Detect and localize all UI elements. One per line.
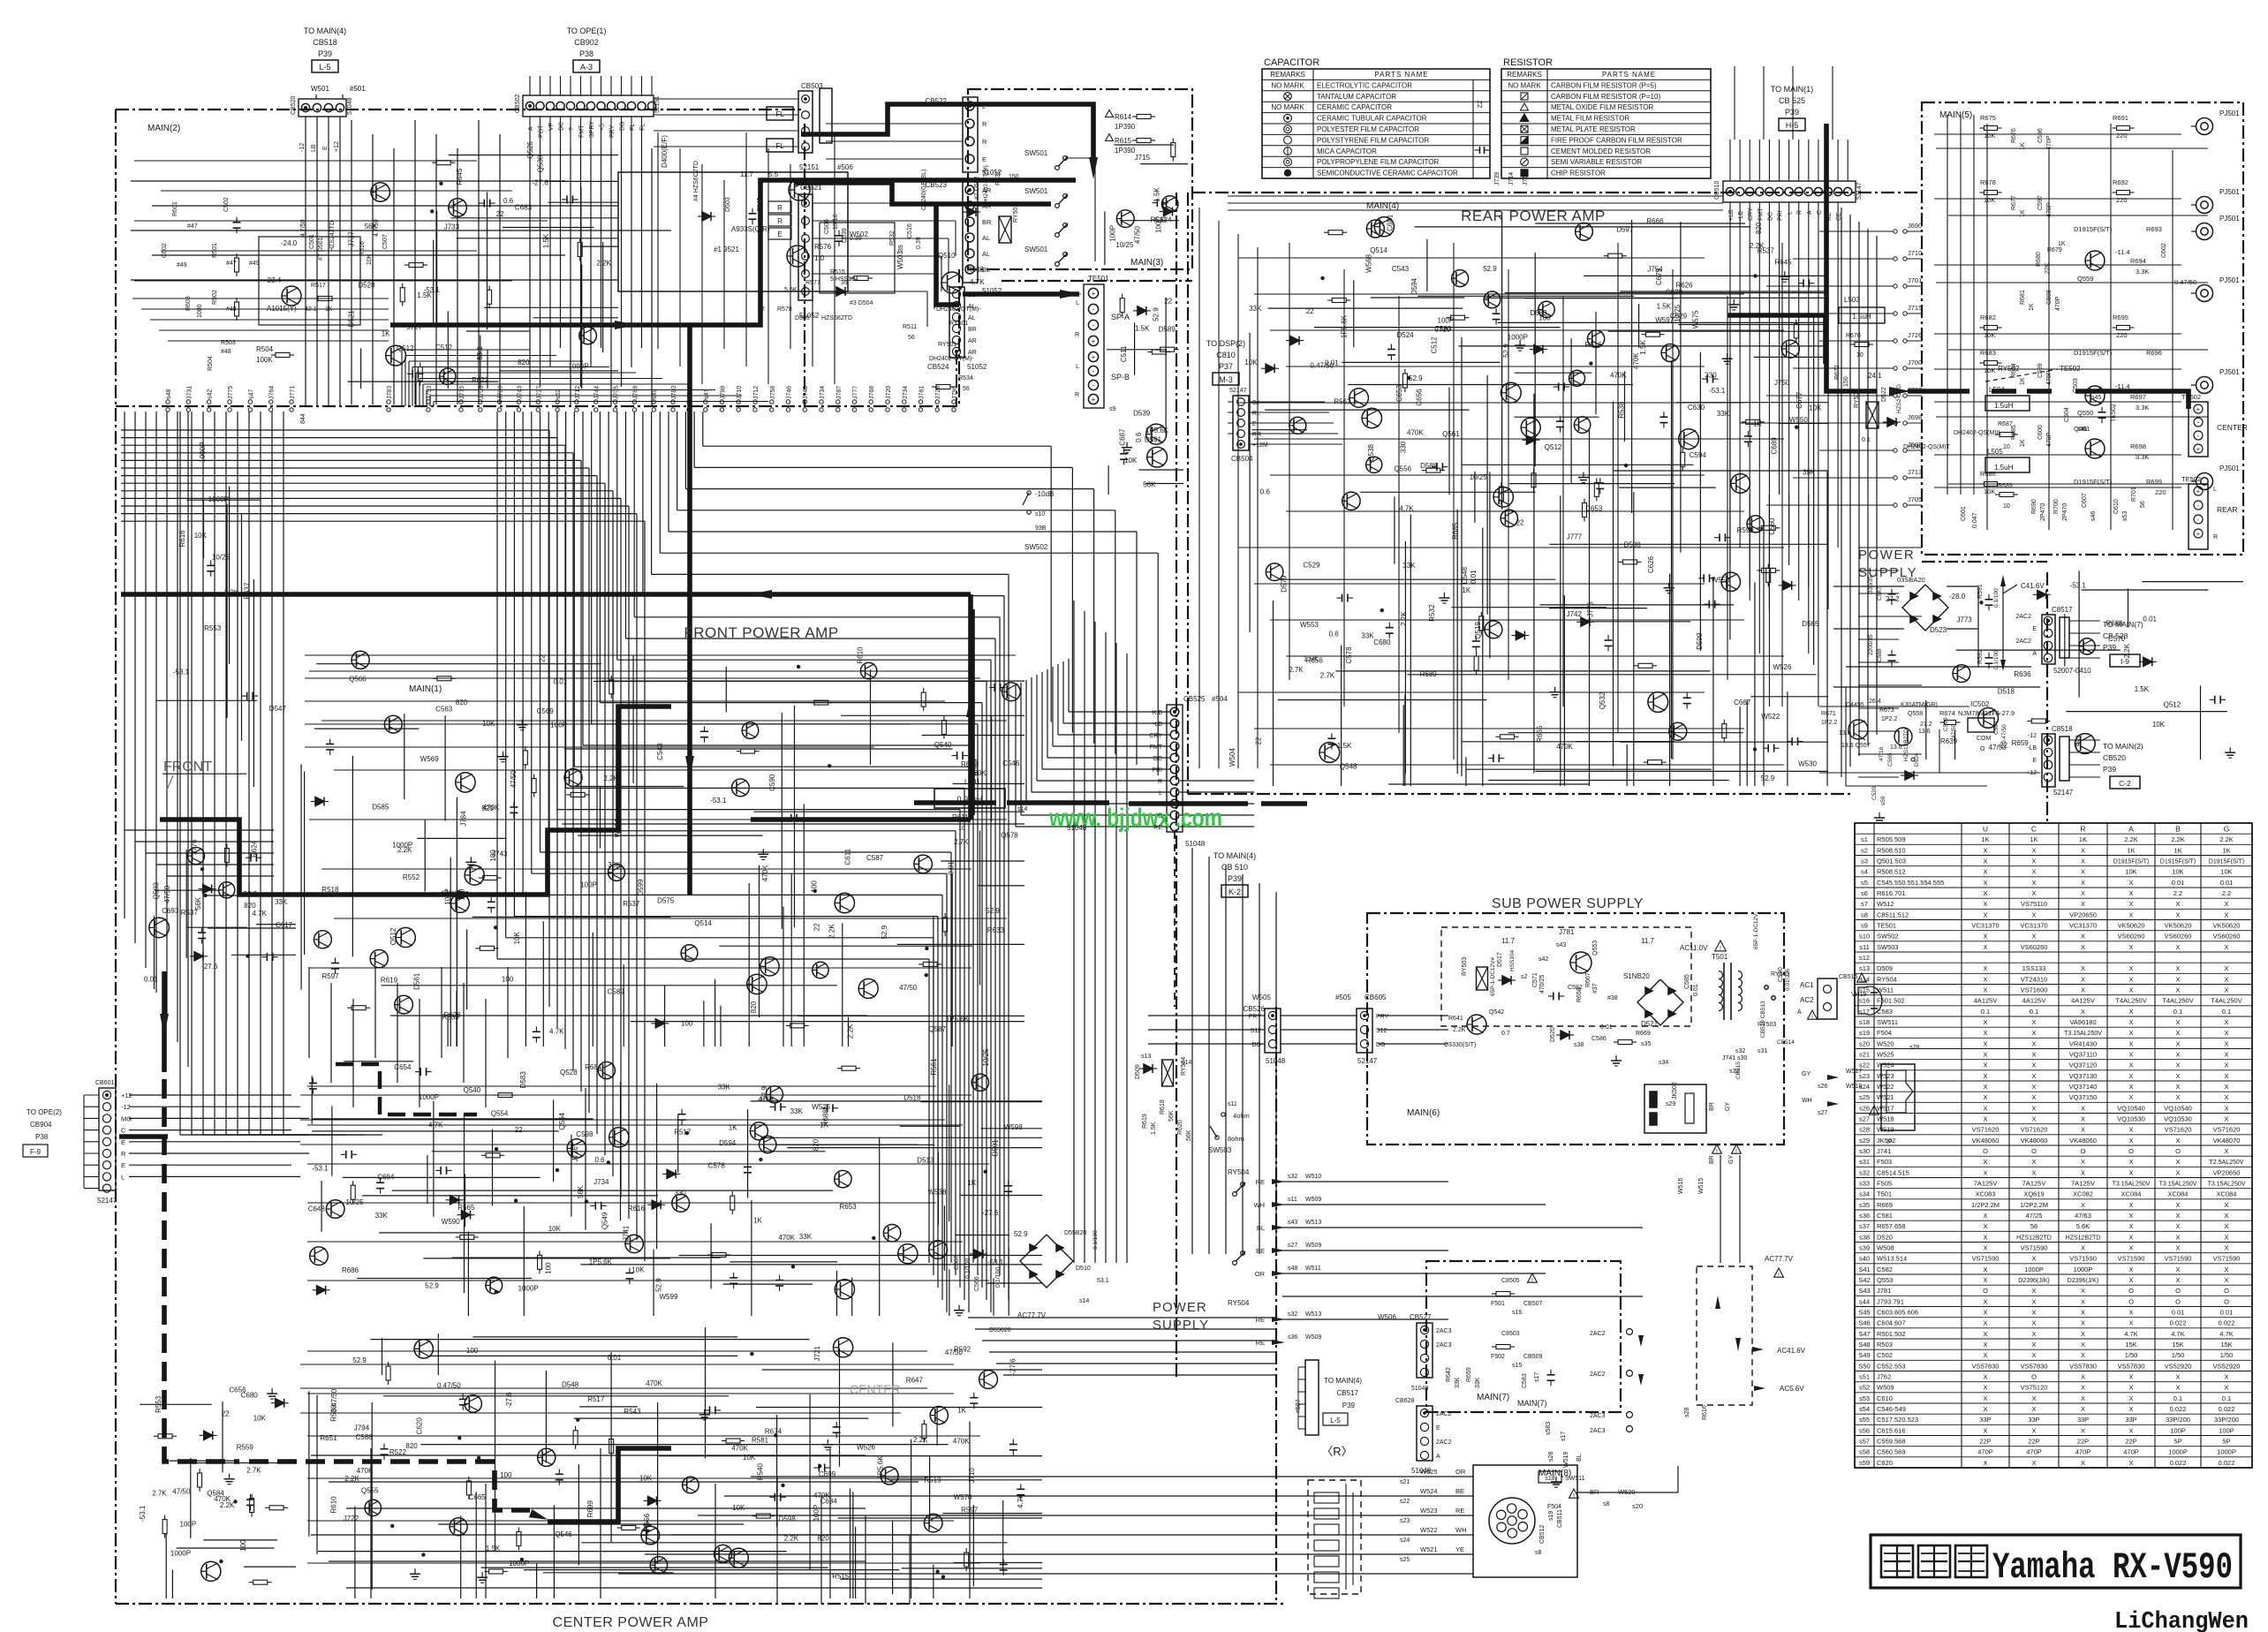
svg-text:22: 22 [222, 1409, 230, 1417]
svg-text:W519: W519 [1563, 1452, 1569, 1468]
svg-text:s9: s9 [1109, 406, 1116, 412]
svg-text:+: + [2196, 405, 2201, 413]
svg-text:56: 56 [963, 386, 970, 392]
svg-text:D589: D589 [1159, 325, 1176, 333]
svg-text:C598: C598 [576, 1130, 593, 1138]
svg-text:#507: #507 [1296, 1399, 1302, 1413]
svg-text:0.022: 0.022 [2170, 1319, 2187, 1327]
svg-text:J798: J798 [721, 386, 727, 399]
svg-text:W509: W509 [1305, 1197, 1321, 1203]
svg-text:X: X [1983, 1072, 1987, 1080]
svg-text:10K: 10K [2125, 868, 2136, 876]
svg-text:FMT: FMT [1150, 744, 1163, 751]
svg-text:s36: s36 [1288, 1334, 1297, 1341]
svg-text:S43: S43 [1858, 1287, 1870, 1295]
svg-text:R553: R553 [155, 1395, 163, 1413]
svg-text:s31: s31 [1859, 1158, 1870, 1166]
svg-text:33K: 33K [1249, 305, 1262, 313]
svg-text:Q526: Q526 [526, 141, 534, 159]
svg-text:X: X [2128, 1405, 2133, 1413]
svg-text:0.022: 0.022 [2170, 1405, 2187, 1413]
svg-text:X: X [2224, 1104, 2228, 1112]
svg-text:X: X [2224, 1039, 2228, 1047]
svg-text:39: 39 [898, 245, 904, 252]
svg-text:METAL FILM RESISTOR: METAL FILM RESISTOR [1551, 115, 1629, 123]
svg-text:GY: GY [1725, 1102, 1731, 1111]
svg-text:470K: 470K [440, 890, 457, 898]
svg-text:C583: C583 [1522, 1373, 1528, 1388]
svg-text:AC11.0V: AC11.0V [1680, 944, 1708, 952]
svg-text:#506: #506 [837, 163, 853, 171]
svg-text:470K: 470K [761, 865, 769, 881]
svg-text:TE501: TE501 [1877, 922, 1896, 930]
svg-text:C653: C653 [1395, 384, 1403, 402]
svg-text:R517: R517 [674, 1129, 692, 1137]
svg-text:D575: D575 [657, 896, 675, 904]
svg-text:C602: C602 [2161, 243, 2167, 258]
svg-text:K-2: K-2 [1228, 888, 1241, 896]
svg-text:R619: R619 [381, 976, 398, 984]
svg-text:X: X [2175, 900, 2180, 908]
svg-text:X: X [2128, 1222, 2133, 1230]
svg-text:1.5K: 1.5K [1151, 1122, 1157, 1135]
svg-text:W530: W530 [1798, 759, 1817, 767]
svg-text:0.01/275: 0.01/275 [1785, 968, 1791, 991]
svg-text:10K: 10K [2152, 721, 2166, 729]
svg-text:Q578: Q578 [1001, 831, 1018, 839]
svg-text:s24: s24 [1400, 1538, 1410, 1544]
svg-text:P39: P39 [1342, 1402, 1356, 1409]
svg-text:P39: P39 [1785, 108, 1799, 117]
svg-text:C: C [1158, 813, 1162, 820]
svg-text:R615: R615 [1115, 137, 1132, 145]
svg-text:0.1/100: 0.1/100 [995, 1267, 1002, 1288]
svg-text:Q519: Q519 [1474, 622, 1482, 639]
svg-text:X: X [2081, 900, 2085, 908]
svg-text:X: X [1983, 900, 1987, 908]
svg-text:C687: C687 [1118, 428, 1126, 446]
svg-text:3.3K: 3.3K [2136, 453, 2149, 461]
svg-text:R676: R676 [2011, 128, 2017, 143]
svg-text:1000P: 1000P [170, 1550, 191, 1558]
svg-text:X: X [2128, 1072, 2133, 1080]
svg-text:J734: J734 [820, 386, 826, 399]
svg-text:DH2402-QT(M)-: DH2402-QT(M)- [936, 306, 981, 313]
svg-text:X: X [2175, 1137, 2180, 1145]
svg-text:s4: s4 [1861, 868, 1868, 876]
svg-text:DH2402-QT(M): DH2402-QT(M) [983, 165, 989, 205]
svg-text:W506: W506 [1378, 1313, 1396, 1321]
svg-text:C694: C694 [377, 1174, 395, 1182]
svg-text:X: X [2081, 1309, 2085, 1317]
svg-text:52147: 52147 [1229, 388, 1247, 394]
svg-text:R665: R665 [1536, 725, 1544, 743]
svg-text:1K: 1K [2020, 142, 2026, 150]
svg-text:W511: W511 [1305, 1266, 1321, 1272]
svg-text:J762: J762 [1877, 1373, 1891, 1381]
svg-text:!: ! [1778, 1273, 1780, 1279]
svg-text:J737: J737 [1908, 386, 1922, 394]
svg-text:R504: R504 [208, 356, 214, 371]
svg-text:C630: C630 [1688, 404, 1705, 412]
svg-text:52007-0410: 52007-0410 [2053, 667, 2091, 675]
svg-text:R636: R636 [2014, 670, 2031, 678]
svg-text:R: R [1797, 210, 1803, 215]
svg-text:C600: C600 [2037, 425, 2044, 440]
svg-text:X: X [2175, 1083, 2180, 1091]
svg-text:R689: R689 [1998, 483, 2013, 489]
svg-text:X: X [2031, 1426, 2036, 1434]
svg-text:PRI: PRI [1152, 767, 1162, 774]
svg-text:R532: R532 [1428, 604, 1436, 622]
svg-text:O: O [2175, 1297, 2181, 1305]
svg-text:0.1: 0.1 [1981, 1008, 1990, 1016]
svg-text:10K: 10K [367, 253, 373, 265]
svg-text:s13: s13 [1141, 1054, 1151, 1060]
svg-text:D547: D547 [269, 705, 287, 713]
svg-text:METAL OXIDE FILM RESISTOR: METAL OXIDE FILM RESISTOR [1551, 103, 1654, 111]
svg-text:W599: W599 [660, 1293, 678, 1301]
svg-text:1000P: 1000P [2168, 1448, 2188, 1456]
svg-text:-12: -12 [2028, 733, 2037, 739]
svg-text:J745: J745 [803, 386, 809, 399]
svg-text:RE: RE [1256, 1316, 1265, 1324]
svg-text:C539: C539 [842, 228, 848, 243]
svg-text:POWER: POWER [1153, 1300, 1207, 1315]
svg-text:TE502: TE502 [2181, 393, 2201, 401]
svg-text:TO OPE(1): TO OPE(1) [567, 26, 607, 35]
svg-text:X: X [2128, 1373, 2133, 1381]
svg-text:TO MAIN(4): TO MAIN(4) [1213, 851, 1256, 860]
svg-text:11.7: 11.7 [740, 170, 754, 178]
svg-text:X: X [2128, 1266, 2133, 1273]
svg-text:-12: -12 [121, 1103, 131, 1111]
svg-text:J746: J746 [787, 386, 793, 399]
svg-text:X: X [1983, 1394, 1987, 1402]
svg-text:D583: D583 [519, 1071, 527, 1089]
svg-text:X: X [2031, 1051, 2036, 1059]
svg-text:C517.520.523: C517.520.523 [1877, 1416, 1918, 1424]
svg-text:C545.550.551.554.555: C545.550.551.554.555 [1877, 879, 1944, 887]
svg-text:R: R [777, 204, 782, 212]
svg-text:-27.6: -27.6 [505, 1392, 513, 1409]
svg-text:220: 220 [2155, 488, 2166, 496]
svg-text:VS60260: VS60260 [2213, 933, 2241, 941]
svg-text:W526: W526 [857, 1444, 875, 1452]
svg-text:4A125V: 4A125V [1974, 997, 1998, 1005]
svg-text:TE502: TE502 [2181, 475, 2201, 483]
svg-text:J783: J783 [387, 386, 393, 399]
svg-text:1000P: 1000P [2217, 1448, 2236, 1456]
svg-text:X: X [2081, 964, 2085, 972]
svg-text:R696: R696 [2146, 349, 2162, 357]
svg-text:RE: RE [1256, 1178, 1265, 1186]
svg-text:J701: J701 [1908, 276, 1922, 284]
svg-text:820: 820 [518, 359, 530, 366]
svg-text:X: X [1983, 846, 1987, 854]
svg-text:X: X [1983, 1405, 1987, 1413]
svg-text:J713: J713 [1908, 468, 1922, 476]
svg-text:X: X [2031, 868, 2036, 876]
svg-text:R642: R642 [1446, 1367, 1452, 1382]
svg-text:D510: D510 [1076, 1266, 1091, 1272]
svg-text:R671: R671 [1821, 711, 1836, 717]
svg-text:52147: 52147 [97, 1197, 117, 1205]
svg-text:MAIN(3): MAIN(3) [1130, 258, 1163, 268]
svg-text:TO DSP(2): TO DSP(2) [1206, 339, 1245, 348]
svg-text:C699: C699 [819, 1470, 836, 1478]
svg-text:J722: J722 [344, 1515, 359, 1522]
svg-text:0.1: 0.1 [1862, 437, 1871, 443]
svg-text:PRI: PRI [1778, 210, 1784, 221]
svg-text:X: X [2224, 1147, 2228, 1155]
svg-text:TE502: TE502 [2111, 404, 2117, 422]
svg-text:51052: 51052 [967, 363, 987, 371]
svg-text:Q549: Q549 [601, 1212, 609, 1229]
svg-text:J720: J720 [886, 386, 892, 399]
svg-text:52.9: 52.9 [1761, 774, 1775, 782]
svg-text:Q530: Q530 [537, 155, 545, 172]
svg-text:C611: C611 [843, 848, 851, 865]
svg-text:D1915F(S/T): D1915F(S/T) [2074, 349, 2113, 357]
svg-text:M-3: M-3 [1219, 375, 1233, 384]
svg-text:F504: F504 [1547, 1504, 1561, 1510]
svg-text:0.39: 0.39 [916, 237, 922, 249]
svg-text:C512: C512 [435, 344, 453, 351]
svg-text:SW501: SW501 [1024, 246, 1048, 253]
svg-text:XC083: XC083 [1976, 1190, 1996, 1198]
svg-text:51048: 51048 [1266, 1057, 1286, 1065]
svg-text:C8518: C8518 [2052, 725, 2073, 733]
svg-text:VT24310: VT24310 [2021, 975, 2047, 983]
svg-text:R673: R673 [1879, 707, 1894, 714]
svg-text:REAR: REAR [2217, 505, 2238, 514]
svg-text:470P: 470P [2055, 296, 2061, 311]
svg-text:BR: BR [1709, 1102, 1715, 1111]
svg-text:C585: C585 [1684, 974, 1690, 989]
svg-text:D524: D524 [1397, 331, 1415, 339]
svg-text:VQ37110: VQ37110 [2069, 1051, 2097, 1059]
svg-text:X: X [2031, 1351, 2036, 1359]
svg-text:56K: 56K [1168, 1110, 1175, 1122]
svg-text:33K: 33K [799, 1233, 813, 1241]
svg-text:s26: s26 [1859, 1104, 1870, 1112]
svg-text:100: 100 [500, 1471, 512, 1479]
svg-text:1K: 1K [753, 1216, 762, 1224]
svg-text:X: X [2081, 858, 2085, 865]
svg-text:CB516: CB516 [1839, 974, 1858, 980]
svg-text:CB514: CB514 [1777, 1039, 1795, 1046]
svg-text:PJ501: PJ501 [2219, 368, 2240, 376]
svg-text:4.7K: 4.7K [428, 1121, 443, 1129]
svg-text:J781: J781 [1559, 928, 1575, 936]
svg-text:1K: 1K [2020, 439, 2026, 447]
svg-text:W550: W550 [1712, 577, 1730, 585]
svg-text:470P: 470P [2046, 432, 2053, 447]
svg-text:X: X [2175, 975, 2180, 983]
svg-text:s58: s58 [1859, 1448, 1870, 1456]
svg-text:P39: P39 [2103, 765, 2116, 774]
svg-text:10K: 10K [1984, 331, 1995, 339]
svg-text:10K: 10K [1984, 487, 1995, 495]
svg-text:F-9: F-9 [30, 1148, 42, 1156]
svg-text:S1NB20: S1NB20 [1623, 972, 1650, 980]
svg-text:X: X [1983, 1330, 1987, 1338]
svg-text:2AC2: 2AC2 [2015, 638, 2031, 645]
svg-text:33K: 33K [1361, 632, 1374, 640]
svg-text:C617: C617 [276, 921, 293, 929]
svg-text:VS52920: VS52920 [2213, 1362, 2241, 1370]
svg-text:!: ! [1735, 1149, 1737, 1155]
svg-text:R693: R693 [2146, 225, 2162, 233]
svg-text:22P: 22P [2028, 1438, 2039, 1446]
svg-text:R690: R690 [2031, 499, 2037, 514]
svg-text:R659: R659 [2012, 739, 2030, 747]
svg-text:X: X [1983, 1309, 1987, 1317]
svg-text:E: E [1436, 1425, 1440, 1432]
svg-text:s47: s47 [248, 389, 254, 399]
svg-text:CB510: CB510 [1714, 180, 1720, 200]
svg-text:C629: C629 [1666, 288, 1683, 296]
svg-text:CEMENT MOLDED RESISTOR: CEMENT MOLDED RESISTOR [1551, 147, 1651, 155]
svg-text:C680: C680 [241, 1392, 259, 1400]
svg-text:D520: D520 [1550, 1027, 1556, 1042]
svg-text:X: X [2175, 1201, 2180, 1209]
svg-text:0.01: 0.01 [2143, 615, 2157, 623]
svg-text:Q554: Q554 [491, 1110, 509, 1118]
svg-text:C595: C595 [1887, 752, 1894, 767]
svg-text:H-5: H-5 [1786, 121, 1799, 130]
svg-text:CB605: CB605 [1365, 994, 1387, 1001]
svg-text:1K: 1K [2058, 241, 2066, 247]
svg-text:2.2K: 2.2K [344, 1475, 359, 1483]
svg-text:X: X [2128, 879, 2133, 887]
svg-text:CENTER POWER AMP: CENTER POWER AMP [553, 1615, 709, 1630]
svg-text:P38: P38 [579, 49, 593, 58]
svg-text:R504: R504 [256, 345, 274, 353]
svg-text:SW511: SW511 [1565, 1476, 1585, 1482]
svg-text:7A125V: 7A125V [2022, 1180, 2046, 1188]
svg-text:X: X [1983, 1051, 1987, 1059]
svg-text:52147: 52147 [1357, 1057, 1378, 1065]
svg-text:VS71590: VS71590 [2021, 1244, 2048, 1252]
svg-text:s20: s20 [1859, 1039, 1870, 1047]
svg-text:R618: R618 [1160, 1099, 1166, 1114]
svg-text:VQ10530: VQ10530 [2117, 1115, 2145, 1123]
svg-text:P39: P39 [1228, 874, 1242, 883]
svg-text:BL: BL [1576, 1454, 1583, 1462]
svg-text:X: X [1983, 1018, 1987, 1026]
svg-text:2.2K: 2.2K [828, 924, 835, 939]
svg-text:s39: s39 [1859, 1244, 1870, 1252]
svg-text:HZS24ZTD: HZS24ZTD [1896, 384, 1902, 413]
svg-text:MG: MG [121, 1114, 132, 1122]
svg-text:SPRY: SPRY [589, 121, 595, 138]
svg-text:2AC2: 2AC2 [1436, 1411, 1452, 1417]
svg-text:2.2K: 2.2K [1453, 1027, 1466, 1033]
svg-text:J773: J773 [1956, 616, 1972, 624]
svg-text:4.7K: 4.7K [549, 1028, 564, 1036]
svg-text:X: X [1983, 1083, 1987, 1091]
svg-text:R658: R658 [1576, 987, 1583, 1002]
svg-text:R667: R667 [1585, 972, 1591, 987]
svg-text:A: A [2128, 825, 2134, 834]
svg-text:VC31370: VC31370 [2020, 922, 2047, 930]
svg-text:VS71620: VS71620 [2165, 1126, 2192, 1134]
svg-text:X: X [2128, 975, 2133, 983]
svg-text:X: X [2031, 1104, 2036, 1112]
svg-text:X: X [2175, 1212, 2180, 1220]
svg-text:51048: 51048 [1185, 840, 1206, 848]
svg-text:J728: J728 [935, 386, 941, 399]
svg-text:C601: C601 [1961, 506, 1967, 521]
svg-text:-LB: -LB [2027, 745, 2037, 752]
svg-text:-LB: -LB [1153, 722, 1162, 728]
svg-text:RR: RR [1252, 432, 1261, 438]
svg-text:DH2402-QT(M)-: DH2402-QT(M)- [929, 356, 974, 362]
svg-text:C: C [121, 1127, 126, 1135]
svg-text:W505: W505 [1252, 994, 1271, 1001]
svg-text:#501: #501 [350, 85, 366, 93]
svg-text:100P: 100P [550, 722, 567, 729]
svg-text:D1915F(S/T): D1915F(S/T) [2074, 225, 2113, 233]
svg-text:R670: R670 [1846, 333, 1861, 339]
svg-text:X: X [2128, 1233, 2133, 1241]
svg-text:470P: 470P [2123, 1448, 2139, 1456]
svg-text:0.01: 0.01 [1600, 1024, 1613, 1031]
svg-text:0.01: 0.01 [2220, 879, 2234, 887]
svg-text:330: 330 [1399, 441, 1407, 453]
svg-text:X: X [2175, 1373, 2180, 1381]
svg-text:C589: C589 [608, 988, 625, 996]
svg-text:10: 10 [2003, 444, 2010, 450]
svg-text:PARTS NAME: PARTS NAME [1602, 71, 1656, 79]
svg-text:HSS104: HSS104 [1509, 949, 1516, 971]
svg-text:CB518: CB518 [313, 38, 337, 47]
svg-text:C3330(S/T): C3330(S/T) [1444, 1042, 1476, 1048]
svg-text:C590: C590 [1778, 967, 1784, 982]
svg-text:AR: AR [968, 338, 977, 344]
svg-text:C578: C578 [708, 1162, 726, 1170]
svg-text:D505: D505 [795, 315, 810, 321]
svg-text:R: R [121, 1150, 126, 1158]
svg-text:R639: R639 [1940, 737, 1958, 745]
svg-text:s32: s32 [1288, 1174, 1297, 1180]
svg-text:-: - [1092, 321, 1095, 329]
svg-text:#3 D504: #3 D504 [850, 300, 873, 306]
svg-text:s29: s29 [1859, 1137, 1870, 1145]
svg-text:X: X [2224, 1212, 2228, 1220]
svg-text:0.047: 0.047 [1972, 512, 1978, 528]
svg-text:VS52920: VS52920 [2165, 1362, 2192, 1370]
svg-text:X: X [2175, 1039, 2180, 1047]
svg-text:C578: C578 [1345, 646, 1353, 664]
svg-text:1000P: 1000P [208, 495, 229, 503]
svg-text:470P: 470P [2026, 1448, 2042, 1456]
svg-text:R699: R699 [2146, 478, 2162, 486]
svg-text:4.7K: 4.7K [2219, 1330, 2233, 1338]
svg-text:2.7K: 2.7K [954, 838, 969, 846]
svg-text:s19: s19 [1548, 1511, 1554, 1521]
svg-text:D521: D521 [347, 310, 355, 328]
svg-text:J710: J710 [737, 386, 743, 399]
svg-text:L503: L503 [1844, 296, 1860, 304]
svg-text:J712: J712 [575, 386, 581, 399]
svg-text:3.3K: 3.3K [2136, 404, 2149, 412]
svg-text:R633: R633 [987, 926, 1005, 934]
svg-text:-: - [1092, 382, 1095, 389]
svg-text:C603.605.606: C603.605.606 [1877, 1309, 1918, 1317]
